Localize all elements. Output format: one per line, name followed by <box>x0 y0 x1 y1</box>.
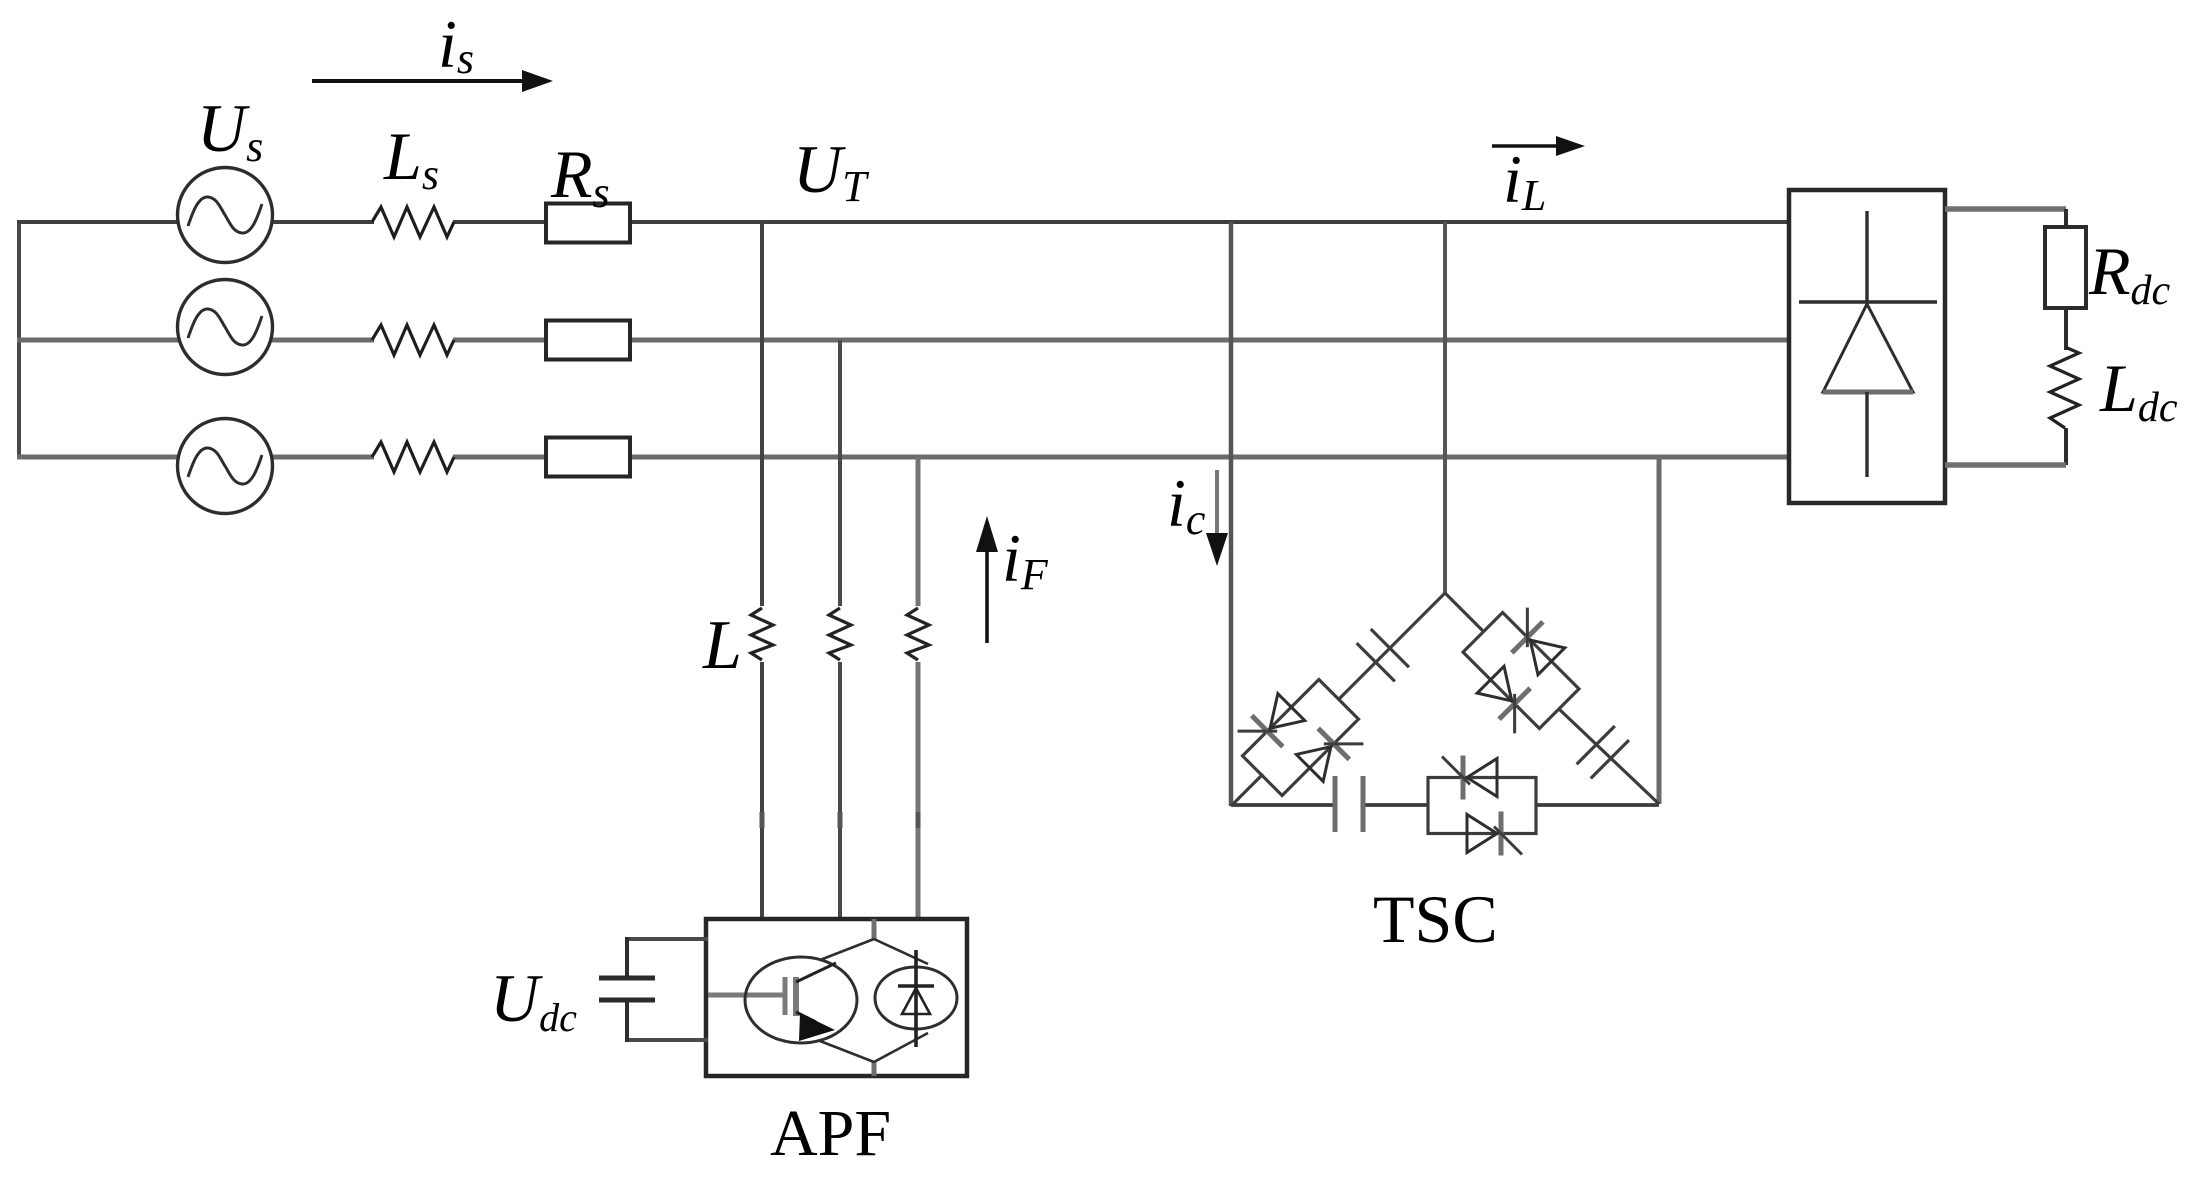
svg-text:TSC: TSC <box>1373 881 1498 957</box>
svg-text:L: L <box>702 607 742 684</box>
svg-text:APF: APF <box>770 1097 891 1170</box>
